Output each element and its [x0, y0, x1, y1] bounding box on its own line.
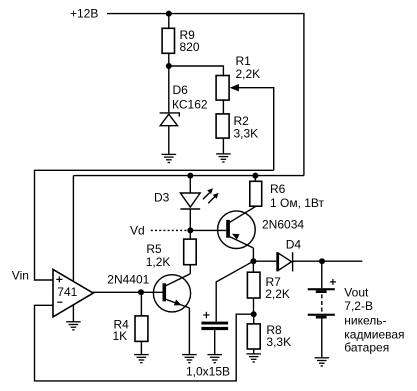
wire: capacitor to ground — [214, 330, 216, 354]
svg-text:Vout: Vout — [344, 285, 369, 299]
wire: Q2 lower lead down to node — [252, 248, 254, 261]
transistor Q2 2N6034 circle — [218, 211, 256, 249]
wire: sense line to op-amp + input (Vin node) — [35, 170, 274, 280]
LED light arrow 2 — [208, 193, 218, 203]
svg-text:D3: D3 — [154, 190, 170, 204]
label Vout battery description — [344, 285, 404, 354]
ground (R4) — [134, 355, 149, 363]
Q1 emitter arrowhead — [174, 300, 182, 306]
wire: node down to zener D6 — [168, 66, 170, 112]
svg-text:+12В: +12В — [70, 7, 98, 21]
svg-text:R6: R6 — [270, 182, 286, 196]
battery + sign — [330, 279, 336, 285]
wire: battery to ground — [321, 319, 323, 358]
Q2 lower lead — [230, 237, 254, 248]
svg-text:1,0x15В: 1,0x15В — [186, 364, 230, 378]
svg-text:3,3K: 3,3K — [266, 335, 291, 349]
svg-text:1,2K: 1,2K — [146, 255, 171, 269]
svg-text:741: 741 — [57, 285, 77, 299]
wire: node to Q2 base — [190, 229, 226, 231]
svg-text:2N6034: 2N6034 — [262, 218, 304, 232]
svg-text:Vd: Vd — [130, 224, 145, 238]
svg-text:D6: D6 — [173, 83, 189, 97]
wire: node to R5 — [189, 230, 191, 239]
wire: D6 anode to ground — [168, 126, 170, 155]
svg-text:R5: R5 — [146, 242, 162, 256]
resistor R8 — [247, 324, 260, 349]
wire: +12V line down to op-amp V+ pin — [72, 176, 74, 282]
R1 wiper arrowhead — [230, 84, 239, 91]
wire: node down to battery — [321, 261, 323, 288]
capacitor C1 plates — [201, 322, 228, 331]
capacitor C1 + sign — [203, 312, 209, 319]
Q2 emitter arrowhead — [232, 234, 240, 240]
wire: rail to R9 — [168, 14, 170, 29]
svg-text:2,2K: 2,2K — [265, 287, 290, 301]
Q2 base bar — [226, 220, 230, 238]
battery top cell plates — [308, 288, 335, 293]
wire: node to R7 — [252, 261, 254, 272]
svg-text:D4: D4 — [286, 237, 302, 251]
wire: R7 to divider node — [253, 298, 255, 314]
wire: R4 to ground — [140, 341, 142, 354]
zener diode D6 cathode bar — [160, 113, 180, 117]
svg-text:1K: 1K — [113, 329, 128, 343]
svg-text:3,3K: 3,3K — [234, 126, 259, 140]
node: op-amp output / R4 / Q1 base — [138, 289, 144, 295]
svg-text:2N4401: 2N4401 — [107, 272, 149, 286]
ground (capacitor) — [207, 355, 222, 363]
ground (battery) — [315, 358, 330, 366]
resistor R4 — [135, 316, 148, 342]
Q1 emitter lead — [166, 299, 189, 308]
Q1 collector lead — [166, 274, 190, 286]
battery dashed middle — [321, 294, 323, 313]
LED D3 triangle — [180, 193, 200, 207]
resistor R5 — [184, 239, 197, 265]
svg-text:7,2-В: 7,2-В — [344, 299, 373, 313]
svg-text:батарея: батарея — [344, 341, 389, 355]
svg-text:КС162: КС162 — [172, 98, 208, 112]
wire: node to R6 — [254, 176, 256, 182]
wire: D4 cathode to battery and output stub — [293, 260, 363, 262]
op-amp - input sign — [57, 301, 62, 303]
node: D4 / battery + — [319, 258, 325, 264]
wire: Q1 emitter to ground — [188, 308, 190, 355]
Q1 base bar — [163, 283, 167, 301]
node: R9 / D6 / R1 — [166, 63, 172, 69]
ground (op-amp) — [66, 322, 81, 330]
LED light arrow 1 — [203, 188, 213, 199]
wire: +12V rail across top and down right side — [107, 14, 304, 176]
wire: R8 to ground — [253, 349, 255, 354]
node: +12V rail / R9 top — [166, 11, 172, 17]
ground (D6) — [162, 154, 177, 162]
LED D3 cathode bar — [180, 208, 200, 210]
wire: node to R1 top — [169, 66, 224, 76]
diode D4 cathode bar — [292, 252, 294, 271]
svg-text:никель-: никель- — [344, 313, 386, 327]
diode D4 anode bar — [276, 252, 278, 271]
wire: D3 anode — [189, 176, 191, 193]
Q2 upper lead to R6 — [230, 206, 256, 222]
wire: - input feedback to R7/R8 divider node — [35, 305, 254, 381]
resistor R6 — [250, 181, 262, 206]
op-amp U1 741 triangle — [53, 269, 93, 317]
wire: R1 bottom to R2 top — [222, 100, 224, 114]
svg-text:Vin: Vin — [12, 269, 29, 283]
dotted wire: Vd to node — [151, 229, 187, 231]
resistor R2 — [216, 114, 229, 138]
node: R7 / R8 / feedback — [251, 311, 257, 317]
node: Q2 / D4 / R7 / C1 — [250, 258, 256, 264]
ground (Q1 emitter) — [182, 355, 197, 363]
wire: op-amp ground stem — [72, 305, 74, 322]
wire: divider node to R8 — [253, 314, 255, 324]
ground (R8) — [246, 354, 261, 362]
svg-text:кадмиевая: кадмиевая — [344, 327, 404, 341]
potentiometer R1 — [216, 76, 229, 101]
svg-text:2,2K: 2,2K — [236, 67, 261, 81]
wire: node to R4 — [140, 292, 142, 316]
zener diode D6 triangle — [160, 114, 177, 126]
ground (R2) — [216, 154, 231, 162]
wire: node to D4 anode — [253, 260, 276, 262]
wire: +12V horizontal distribution line — [73, 175, 304, 177]
transistor Q1 2N4401 circle — [153, 275, 190, 312]
resistor R9 — [162, 28, 174, 53]
svg-text:820: 820 — [180, 40, 200, 54]
wire: R9 bottom to node — [168, 53, 170, 66]
node: +12V line / R6 top — [252, 173, 258, 179]
wire: wiper to sense line — [238, 88, 274, 171]
wire: op-amp output to Q1 base — [93, 291, 163, 293]
node: D3 / R5 / Q2 base — [187, 227, 193, 233]
op-amp + input sign — [56, 276, 62, 282]
wire: D3 cathode to node — [189, 209, 191, 230]
wire: R2 to ground — [222, 138, 224, 154]
wire: R5 to Q1 collector — [189, 265, 191, 274]
diode D4 triangle — [278, 253, 291, 270]
svg-text:1 Ом, 1Вт: 1 Ом, 1Вт — [270, 196, 325, 210]
battery bottom cell plates — [308, 314, 335, 319]
node: +12V line / D3 anode — [187, 173, 193, 179]
resistor R7 — [247, 272, 260, 298]
svg-text:R1: R1 — [236, 54, 252, 68]
wire: node diagonal to capacitor C1 — [216, 261, 253, 321]
